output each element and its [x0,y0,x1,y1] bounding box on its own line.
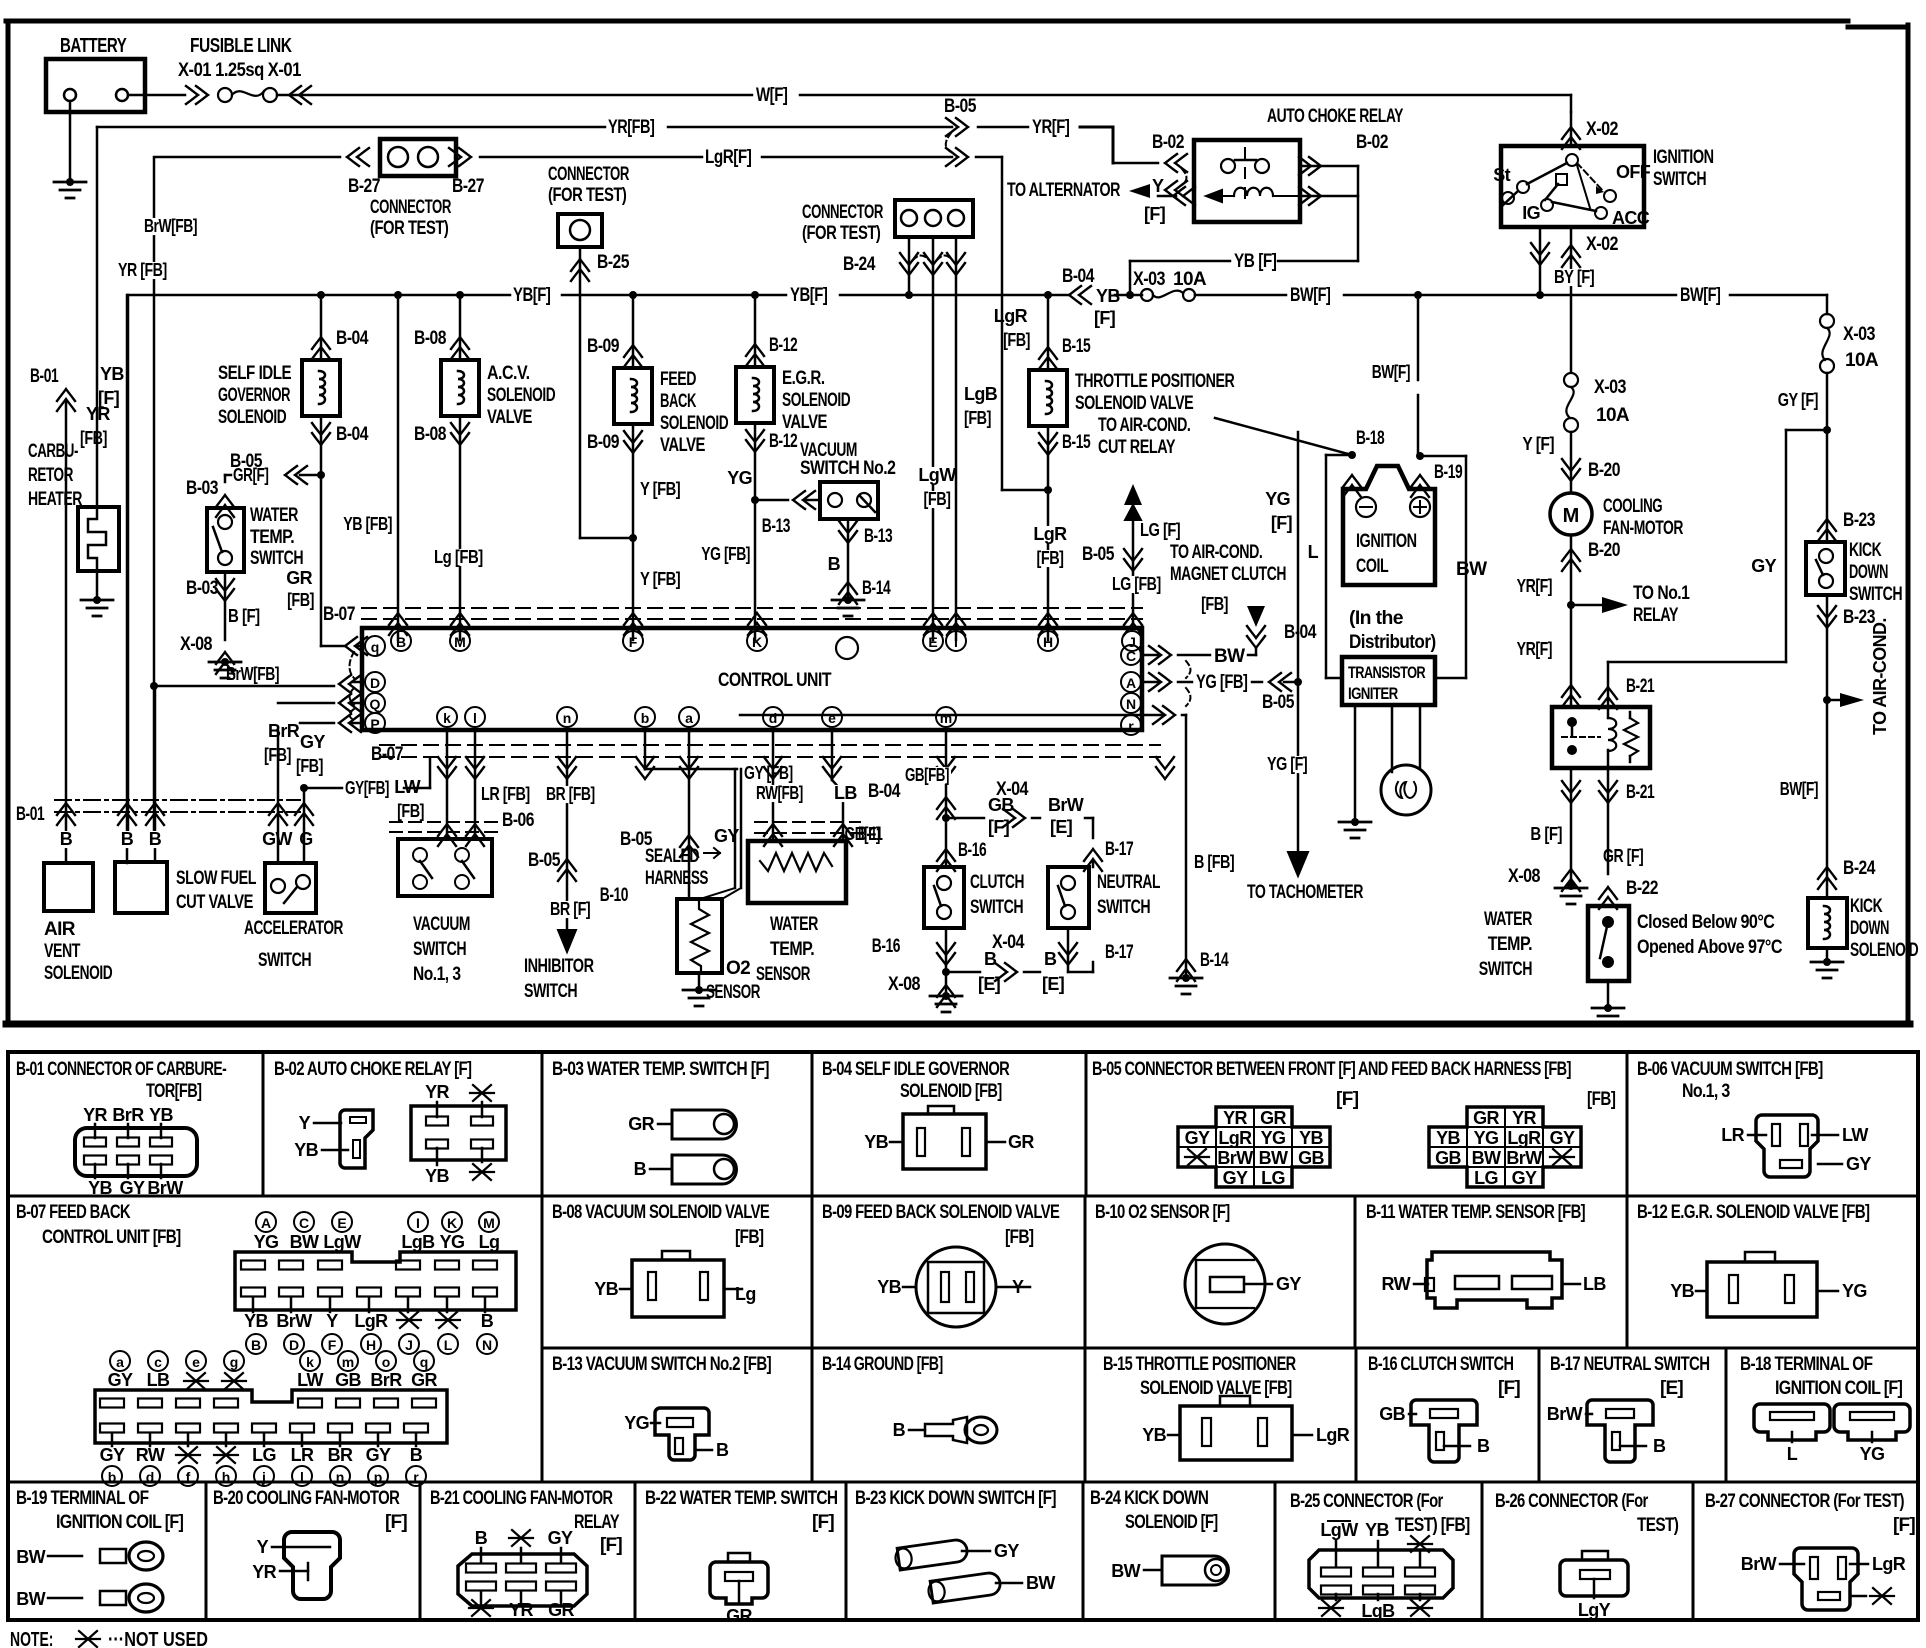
svg-text:B-12: B-12 [769,431,797,452]
svg-text:Y [FB]: Y [FB] [640,479,680,499]
svg-text:LgR[F]: LgR[F] [705,147,752,168]
svg-text:TO AIR-COND.: TO AIR-COND. [1870,618,1890,735]
svg-text:BR [FB]: BR [FB] [546,784,595,804]
svg-text:B-15: B-15 [1062,432,1091,453]
svg-text:GB: GB [1379,1404,1405,1424]
svg-text:B-24 KICK DOWN: B-24 KICK DOWN [1090,1488,1208,1509]
svg-text:GB: GB [1298,1148,1324,1168]
B-16 chevrons above clutch switch [937,849,955,871]
pin C output BW / B-04 arrow [1142,654,1158,657]
fuse X-03 below ignition switch [1564,373,1578,387]
svg-text:[F]: [F] [1094,308,1115,328]
svg-text:B: B [481,1311,494,1331]
svg-text:RELAY: RELAY [1633,605,1679,626]
svg-text:GY[FB]: GY[FB] [345,778,389,798]
svg-text:B-17: B-17 [1105,942,1133,963]
svg-text:CONTROL UNIT [FB]: CONTROL UNIT [FB] [42,1227,181,1248]
water temp sensor B-11 [772,730,775,841]
svg-text:B-13: B-13 [864,526,892,547]
svg-text:LB: LB [147,1370,170,1390]
svg-text:SWITCH: SWITCH [413,939,466,960]
svg-text:B-07: B-07 [323,604,355,625]
svg-text:SWITCH: SWITCH [524,981,577,1002]
cooling fan motor [1550,493,1592,535]
svg-text:YR: YR [425,1082,449,1102]
bus YB[F] / BW[F] [128,294,510,297]
svg-text:F: F [629,634,638,650]
svg-text:IGNITION: IGNITION [1653,147,1714,168]
svg-text:B-15 THROTTLE POSITIONER: B-15 THROTTLE POSITIONER [1103,1354,1296,1375]
svg-text:B: B [149,829,162,849]
svg-text:BrW[FB]: BrW[FB] [226,664,279,684]
control unit bottom pins [437,707,457,727]
GY[FB] wire [300,784,308,792]
svg-text:CONNECTOR: CONNECTOR [548,164,630,185]
svg-text:B-11 WATER TEMP. SENSOR [FB]: B-11 WATER TEMP. SENSOR [FB] [1366,1202,1585,1223]
GY branch to fan relay [1786,429,1827,432]
svg-text:l: l [473,710,477,726]
svg-text:SWITCH: SWITCH [250,548,303,569]
svg-text:B-04: B-04 [1284,622,1317,643]
svg-text:B: B [410,1445,423,1465]
svg-text:YR: YR [509,1600,533,1620]
svg-text:B-03 WATER TEMP. SWITCH [F]: B-03 WATER TEMP. SWITCH [F] [552,1059,769,1080]
svg-text:YG: YG [1261,1128,1286,1148]
svg-text:BW: BW [1111,1561,1140,1581]
svg-text:YB: YB [877,1277,901,1297]
svg-text:YB: YB [594,1279,618,1299]
svg-text:Y: Y [257,1537,269,1557]
svg-text:COIL: COIL [1356,556,1389,577]
svg-text:LG [FB]: LG [FB] [1112,574,1161,594]
B-01 dash-dot bus [55,799,300,801]
svg-text:BW: BW [1456,559,1487,580]
control unit box [362,628,1142,730]
svg-text:IG: IG [1522,203,1540,223]
svg-text:H: H [1043,634,1053,650]
svg-text:YB: YB [149,1105,173,1125]
svg-text:LgR: LgR [1033,524,1067,544]
wire BW[F] right corner to fuse [1826,295,1829,314]
svg-text:SELF IDLE: SELF IDLE [218,363,291,384]
svg-text:B-05 CONNECTOR BETWEEN FRONT [: B-05 CONNECTOR BETWEEN FRONT [F] AND FEE… [1092,1059,1571,1080]
svg-text:B-22 WATER TEMP. SWITCH: B-22 WATER TEMP. SWITCH [645,1488,837,1509]
wire YR down to auto choke relay [1112,127,1115,163]
svg-text:GY: GY [366,1445,391,1465]
svg-text:BW: BW [1472,1148,1501,1168]
svg-text:B-16: B-16 [958,840,986,861]
svg-text:r: r [413,1469,419,1485]
svg-text:q: q [420,1354,429,1370]
svg-text:B-10: B-10 [600,885,628,906]
svg-text:AIR: AIR [44,919,76,940]
svg-text:X-04: X-04 [992,932,1025,953]
svg-text:D: D [370,675,380,691]
svg-text:CLUTCH: CLUTCH [970,872,1024,893]
svg-text:B-17 NEUTRAL SWITCH: B-17 NEUTRAL SWITCH [1550,1354,1709,1375]
svg-text:IGNITER: IGNITER [1348,684,1398,703]
svg-text:LW: LW [297,1370,323,1390]
svg-text:TEST): TEST) [1637,1515,1679,1536]
svg-text:B-07: B-07 [371,744,403,765]
svg-text:Lg [FB]: Lg [FB] [434,547,483,567]
to No.1 relay arrow [1567,601,1575,609]
svg-text:Opened Above 97°C: Opened Above 97°C [1637,937,1783,958]
svg-text:St: St [1493,165,1510,185]
svg-text:GY: GY [1846,1154,1871,1174]
svg-text:m: m [940,710,952,726]
svg-text:B [FB]: B [FB] [1194,852,1234,872]
svg-text:[FB]: [FB] [80,428,107,448]
svg-text:GB: GB [1435,1148,1461,1168]
O2 sensor B-10 [688,858,691,899]
svg-text:B-25 CONNECTOR (For: B-25 CONNECTOR (For [1290,1491,1444,1512]
fuse X-03 right [1820,314,1834,328]
svg-text:BW: BW [1214,646,1245,667]
svg-text:THROTTLE POSITIONER: THROTTLE POSITIONER [1075,371,1235,392]
svg-text:B-25: B-25 [597,252,630,273]
svg-text:NOTE:: NOTE: [10,1629,53,1648]
svg-text:CARBU-: CARBU- [28,441,78,462]
svg-text:IGNITION: IGNITION [1356,531,1417,552]
B-07 upper connector [256,1212,276,1232]
svg-text:B [F]: B [F] [1530,824,1562,844]
svg-text:K: K [752,634,762,650]
svg-text:No.1, 3: No.1, 3 [413,964,461,985]
svg-text:YR[F]: YR[F] [1032,117,1070,138]
wire to pin Q [278,702,334,705]
svg-text:B: B [716,1440,729,1460]
svg-text:YB[F]: YB[F] [790,285,828,306]
svg-text:LgY: LgY [1578,1600,1611,1620]
below clutch switch [945,928,948,995]
svg-text:YR: YR [1512,1108,1536,1128]
svg-text:B [F]: B [F] [228,606,260,626]
X-02 arrows below ignition switch [1539,227,1542,295]
svg-text:B-02: B-02 [1356,132,1388,153]
svg-text:Y: Y [299,1113,311,1133]
svg-text:AUTO CHOKE RELAY: AUTO CHOKE RELAY [1267,106,1404,127]
svg-text:B: B [396,634,406,650]
svg-text:YB: YB [1436,1128,1460,1148]
wires to air vent solenoid and slow fuel cut valve [126,295,129,863]
svg-text:BrW: BrW [276,1311,312,1331]
svg-text:f: f [186,1469,191,1485]
water temp switch B-22 [1588,906,1629,981]
sealed harness double line [734,769,737,888]
ignition switch box [1501,146,1644,227]
svg-text:COOLING: COOLING [1603,496,1662,517]
svg-text:SWITCH: SWITCH [258,950,311,971]
svg-text:B-05: B-05 [528,850,561,871]
svg-text:B: B [1044,949,1057,969]
svg-text:YR[F]: YR[F] [1517,576,1552,596]
svg-text:X-08: X-08 [1508,866,1540,887]
svg-text:X-08: X-08 [180,634,212,655]
igniter ground [1354,705,1357,820]
slow fuel cut valve box [115,862,167,913]
svg-text:GR: GR [1008,1132,1034,1152]
svg-text:[FB]: [FB] [735,1227,764,1248]
svg-text:B-05: B-05 [1082,544,1115,565]
svg-text:RW: RW [136,1445,165,1465]
svg-text:e: e [828,710,836,726]
LgR[F] joins B-15 wire [1001,157,1004,490]
svg-text:TO AIR-COND.: TO AIR-COND. [1098,415,1190,436]
svg-text:SWITCH: SWITCH [1653,169,1706,190]
svg-text:B-03: B-03 [186,478,218,499]
svg-text:BW: BW [290,1232,319,1252]
svg-text:BrW: BrW [1741,1554,1777,1574]
svg-text:N: N [1126,696,1136,712]
svg-text:Lg: Lg [479,1232,500,1252]
svg-text:BrW: BrW [1217,1148,1253,1168]
svg-text:GB[F]: GB[F] [845,824,880,844]
svg-text:e: e [192,1354,200,1370]
svg-text:Distributor): Distributor) [1349,632,1436,653]
svg-text:[FB]: [FB] [1003,330,1030,350]
svg-text:YB: YB [425,1166,449,1186]
svg-text:B-24: B-24 [843,254,876,275]
svg-text:YB: YB [1670,1281,1694,1301]
svg-text:d: d [769,710,778,726]
svg-text:Y: Y [1152,176,1164,196]
svg-text:g: g [230,1354,239,1370]
svg-text:(FOR TEST): (FOR TEST) [548,185,627,206]
svg-text:ACC: ACC [1612,208,1650,228]
svg-text:B-08: B-08 [414,328,446,349]
svg-text:IGNITION COIL [F]: IGNITION COIL [F] [1775,1378,1903,1399]
svg-text:B-03: B-03 [186,578,218,599]
svg-text:GR[F]: GR[F] [233,465,268,485]
svg-text:GY: GY [994,1541,1019,1561]
svg-text:A: A [261,1215,271,1231]
wire BW[F] down from bus to B-19 [1417,295,1420,380]
svg-text:B-17: B-17 [1105,839,1133,860]
svg-text:GR: GR [628,1114,654,1134]
svg-text:B-16: B-16 [872,936,900,957]
big O on control unit [836,637,858,659]
svg-text:SENSOR: SENSOR [756,964,811,985]
svg-text:YG: YG [727,468,752,488]
svg-text:N: N [482,1337,492,1353]
svg-text:B-01 CONNECTOR OF CARBURE-: B-01 CONNECTOR OF CARBURE- [16,1059,227,1080]
svg-text:[FB]: [FB] [1005,1227,1034,1248]
control unit left pins [365,636,385,656]
svg-text:[FB]: [FB] [287,590,314,610]
svg-text:H: H [366,1337,376,1353]
svg-text:SWITCH: SWITCH [1479,959,1532,980]
svg-text:B-18: B-18 [1356,428,1384,449]
svg-text:q: q [371,639,380,655]
svg-text:B: B [893,1420,906,1440]
svg-text:LW: LW [394,777,420,797]
svg-text:CUT VALVE: CUT VALVE [176,892,253,913]
svg-text:a: a [685,710,693,726]
transistor igniter box [1342,657,1435,705]
svg-text:M: M [454,634,466,650]
svg-text:YG [FB]: YG [FB] [701,544,750,564]
svg-text:r: r [1128,718,1134,734]
svg-text:[FB]: [FB] [924,489,951,509]
svg-text:n: n [336,1469,345,1485]
svg-text:TEMP.: TEMP. [1488,934,1532,955]
svg-text:X-08: X-08 [888,974,920,995]
svg-text:YG [F]: YG [F] [1267,754,1307,774]
svg-text:GB[FB]: GB[FB] [905,765,949,785]
svg-text:YG [FB]: YG [FB] [1196,672,1248,693]
svg-text:[F]: [F] [1144,204,1165,224]
svg-text:WATER: WATER [1484,909,1533,930]
svg-text:LgR: LgR [1218,1128,1252,1148]
svg-text:F: F [328,1337,337,1353]
svg-text:BW: BW [1026,1573,1055,1593]
svg-text:GR: GR [726,1606,752,1626]
svg-text:[E]: [E] [1042,974,1064,994]
svg-text:X-02: X-02 [1586,119,1618,140]
svg-text:BW[F]: BW[F] [1680,285,1721,306]
vertical YR[FB] to carburetor heater [96,127,99,507]
svg-text:[F]: [F] [988,817,1009,837]
accelerator switch [265,831,289,848]
svg-text:LgR: LgR [354,1311,388,1331]
svg-text:YB: YB [1142,1425,1166,1445]
svg-text:GY: GY [1276,1274,1301,1294]
svg-text:B-21: B-21 [1626,676,1655,697]
svg-text:YG: YG [1474,1128,1499,1148]
sealed harness / O2 sensor wires [644,730,647,769]
svg-text:YB: YB [100,364,124,384]
svg-text:Q: Q [370,696,381,712]
kick down solenoid B-24 [1808,898,1847,948]
svg-text:SOLENOID VALVE: SOLENOID VALVE [1075,393,1193,414]
svg-text:B: B [121,829,134,849]
svg-text:GR: GR [548,1600,574,1620]
svg-text:B-02 AUTO CHOKE RELAY [F]: B-02 AUTO CHOKE RELAY [F] [274,1059,472,1080]
svg-text:LgW: LgW [918,465,956,485]
below relay [1570,768,1573,886]
svg-text:TEST) [FB]: TEST) [FB] [1395,1515,1470,1536]
X-02 arrow above ignition switch [1570,112,1573,146]
svg-text:LgR: LgR [1507,1128,1541,1148]
neutral switch B-17 [1092,862,1095,867]
svg-text:YB: YB [294,1140,318,1160]
svg-text:TOR[FB]: TOR[FB] [146,1081,202,1102]
svg-text:YG: YG [624,1413,649,1433]
relay outputs right [1299,157,1321,175]
svg-text:GY: GY [120,1178,145,1198]
branch GB to neutral via X-04 [946,817,984,820]
svg-text:RW[FB]: RW[FB] [756,783,803,803]
svg-text:BW: BW [1259,1148,1288,1168]
svg-text:[FB]: [FB] [1037,548,1064,568]
svg-text:B-23 KICK DOWN SWITCH [F]: B-23 KICK DOWN SWITCH [F] [855,1488,1056,1509]
water temp switch B-03 [216,495,234,517]
svg-text:INHIBITOR: INHIBITOR [524,956,594,977]
svg-text:DOWN: DOWN [1850,918,1889,939]
svg-text:CONNECTOR: CONNECTOR [370,197,452,218]
svg-text:RW: RW [1382,1274,1411,1294]
svg-text:B: B [1653,1436,1666,1456]
YG[F] wire to tachometer [1297,432,1300,852]
svg-text:X-04: X-04 [996,779,1029,800]
wire W[F] to ignition switch [277,94,752,97]
svg-text:[E]: [E] [1050,817,1072,837]
svg-text:B-20: B-20 [1588,460,1620,481]
svg-text:BW: BW [16,1589,45,1609]
wire W from battery [128,94,185,97]
svg-text:[F]: [F] [812,1512,834,1533]
svg-text:GY: GY [1223,1168,1248,1188]
svg-text:A: A [1126,675,1136,691]
svg-text:LgR: LgR [994,306,1028,326]
wire from B-25 to Y[FB] [580,537,633,540]
svg-text:c: c [154,1354,162,1370]
control unit top pins [391,631,411,651]
inner bottom line right part [740,714,1142,717]
svg-text:B-21 COOLING FAN-MOTOR: B-21 COOLING FAN-MOTOR [430,1488,613,1509]
svg-text:B-21: B-21 [1626,782,1655,803]
svg-text:B-04: B-04 [336,328,369,349]
svg-text:l: l [300,1469,304,1485]
air vent solenoid box [44,863,93,911]
svg-text:[F]: [F] [98,388,119,408]
svg-text:GR [F]: GR [F] [1603,846,1643,866]
svg-text:SWITCH: SWITCH [1849,584,1902,605]
svg-text:YB: YB [244,1311,268,1331]
svg-text:B-23: B-23 [1843,510,1875,531]
connector B-27 (for test) [154,156,340,159]
svg-text:L: L [444,1337,453,1353]
svg-text:b: b [108,1469,117,1485]
svg-text:YG: YG [254,1232,279,1252]
svg-text:E.G.R.: E.G.R. [782,368,825,389]
wire YB[F] from relay to fuse [1278,260,1358,263]
svg-text:LgB: LgB [1361,1601,1395,1621]
svg-text:X-03: X-03 [1133,269,1165,290]
svg-text:YB: YB [88,1178,112,1198]
svg-text:X-03: X-03 [1594,377,1626,398]
svg-text:[FB]: [FB] [296,756,323,776]
wire LgB[FB] to pin I [955,237,958,640]
svg-text:A.C.V.: A.C.V. [487,363,530,384]
svg-text:SOLENOID: SOLENOID [1850,940,1918,961]
svg-text:BW[F]: BW[F] [1780,779,1818,799]
wire GB[FB] from pin m [945,730,948,867]
svg-text:GR: GR [411,1370,437,1390]
bus left corner down [127,295,130,833]
distributor pickup coil [1391,705,1394,772]
svg-text:[E]: [E] [978,974,1000,994]
svg-text:GY: GY [1512,1168,1537,1188]
svg-text:TO TACHOMETER: TO TACHOMETER [1247,882,1364,903]
clutch switch B-16 [924,867,964,928]
svg-text:YR[F]: YR[F] [1517,639,1552,659]
svg-text:[E]: [E] [1660,1378,1683,1399]
svg-text:B-22: B-22 [1626,878,1658,899]
svg-text:B-06 VACUUM SWITCH [FB]: B-06 VACUUM SWITCH [FB] [1637,1059,1823,1080]
svg-text:B-14: B-14 [862,578,891,599]
svg-text:k: k [443,710,451,726]
svg-text:m: m [342,1354,354,1370]
svg-text:d: d [146,1469,155,1485]
svg-text:GB: GB [335,1370,361,1390]
svg-text:SWITCH: SWITCH [1097,897,1150,918]
svg-text:SWITCH No.2: SWITCH No.2 [800,458,895,479]
svg-text:DOWN: DOWN [1849,562,1888,583]
svg-text:B-09: B-09 [587,432,619,453]
svg-text:BR [F]: BR [F] [550,899,590,919]
